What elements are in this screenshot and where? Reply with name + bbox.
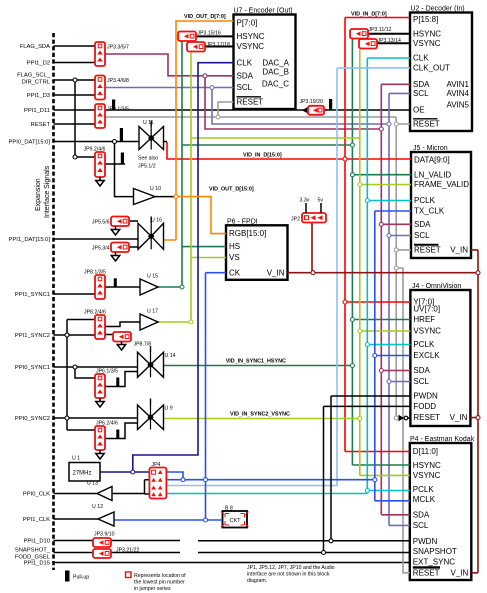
wire JP3.17/18 to U7.VSYNC [205, 46, 234, 48]
svg-text:HSYNC: HSYNC [413, 29, 441, 38]
wire U13 output to JP4 [112, 480, 149, 494]
svg-text:SDA: SDA [414, 220, 431, 229]
svg-text:FODD: FODD [413, 402, 436, 411]
svg-text:PPI0_SYNC2: PPI0_SYNC2 [15, 416, 50, 422]
jumper JP5.5/6 [92, 217, 129, 227]
node FLAG_SDA [20, 44, 95, 50]
svg-text:HSYNC: HSYNC [413, 461, 441, 470]
block J5 Micron [411, 145, 471, 258]
svg-text:PWDN: PWDN [413, 537, 438, 546]
svg-text:PCLK: PCLK [414, 196, 436, 205]
wire PPI1_SYNC2 branch vertical [67, 320, 95, 431]
wire U10 output [155, 196, 176, 198]
wire JP3.19/20 stub [302, 107, 308, 114]
wire SDA magenta net [105, 54, 411, 515]
svg-text:PPI1_D11: PPI1_D11 [24, 108, 50, 114]
wire U11 output to red bus [164, 141, 168, 143]
svg-text:V_IN: V_IN [450, 246, 468, 255]
jumper JP4 [149, 462, 166, 499]
svg-text:J4 - OmniVision: J4 - OmniVision [412, 283, 461, 290]
expansion interface bus rail [35, 33, 54, 570]
node PPI1_D2 [27, 61, 95, 67]
svg-text:DAC_C: DAC_C [262, 80, 289, 89]
buffer U12 [92, 504, 114, 526]
node PPI0_SYNC2 [15, 416, 138, 422]
svg-text:JP4: JP4 [152, 462, 161, 468]
node PPI1_CLK [23, 517, 98, 523]
svg-text:V_IN: V_IN [267, 268, 285, 277]
svg-text:JP5.1/2: JP5.1/2 [138, 164, 156, 170]
svg-text:27MHz: 27MHz [73, 471, 92, 477]
svg-text:JP3.13/14: JP3.13/14 [378, 38, 401, 44]
svg-text:VID_IN_SYNC1_HSYNC: VID_IN_SYNC1_HSYNC [226, 359, 286, 365]
ground below JP6.1/3/5 [96, 398, 104, 407]
svg-text:FLAG_SCL_: FLAG_SCL_ [17, 73, 51, 79]
svg-text:JP1, JP5.12, JP7, JP10 and the: JP1, JP5.12, JP7, JP10 and the Audio [247, 565, 335, 571]
block U7 Encoder (Out) [234, 8, 296, 110]
wire JP8.2/4/6 to JP8.7/8 [105, 334, 113, 336]
svg-text:AVIN4: AVIN4 [446, 89, 469, 98]
pull-up on OE [112, 100, 115, 111]
wire MCLK royal blue net [167, 211, 412, 501]
svg-text:B 8: B 8 [225, 506, 233, 512]
node PPI0_CLK [23, 492, 97, 498]
wire JP5.3/4 to U16 [129, 246, 138, 248]
node PPI0_DAT[15:0] [9, 140, 139, 146]
jumper JP3.17/18 [187, 42, 230, 52]
svg-text:V_IN: V_IN [450, 413, 468, 422]
svg-text:VID_IN_D[7:0]: VID_IN_D[7:0] [351, 12, 387, 18]
svg-text:PPI1_CLK: PPI1_CLK [23, 517, 50, 523]
svg-text:OE: OE [413, 106, 425, 115]
svg-text:RESET: RESET [31, 122, 51, 128]
wire JP8.2/4/6 to U17 [105, 322, 140, 327]
svg-text:VS: VS [229, 253, 240, 262]
jumper JP6.2/4/6 [95, 421, 118, 451]
svg-text:PPI1_SYNC2: PPI1_SYNC2 [15, 333, 50, 339]
svg-text:VSYNC: VSYNC [237, 42, 265, 51]
wire JP3.11/12 to U2.HSYNC [368, 33, 410, 35]
jumper JP8.2/4/6 [84, 310, 106, 340]
svg-text:J5 - Micron: J5 - Micron [413, 145, 448, 152]
svg-text:JP8.1/3/5: JP8.1/3/5 [84, 270, 106, 276]
svg-text:PPI1_D2: PPI1_D2 [27, 61, 50, 67]
wire RESET gray net [105, 102, 411, 573]
svg-text:in jumper series: in jumper series [134, 586, 171, 592]
svg-text:UV[7:0]: UV[7:0] [413, 304, 440, 313]
svg-text:RESET: RESET [413, 120, 440, 129]
buffer U16 [138, 217, 164, 250]
svg-text:SNAPSHOT_: SNAPSHOT_ [15, 548, 51, 554]
wire PPI0_SYNC1 branch to JP6.1/3/5 [75, 367, 95, 378]
svg-text:RESET: RESET [414, 246, 441, 255]
node PPI1_D10 [24, 539, 180, 545]
svg-text:V_IN: V_IN [451, 568, 469, 577]
inverter bubble J4 RESET [399, 415, 411, 421]
wire JP5.5/6 to U16 [129, 220, 138, 222]
svg-text:CKT: CKT [230, 518, 242, 524]
block J4 OmniVision [410, 283, 470, 426]
svg-text:PPI1_D15: PPI1_D15 [24, 561, 50, 567]
wire HSYNC dark green net [158, 39, 411, 466]
node PPI1_D15 [24, 561, 410, 567]
svg-text:RESET: RESET [413, 568, 440, 577]
svg-text:3.3v: 3.3v [300, 198, 310, 204]
svg-text:PPI1_DAT[15:0]: PPI1_DAT[15:0] [9, 237, 51, 243]
svg-text:PPI0_CLK: PPI0_CLK [23, 492, 50, 498]
svg-text:SCL: SCL [413, 377, 429, 386]
wire PPI0_DAT branch to U10 [115, 142, 134, 197]
jumper JP2 [291, 198, 326, 223]
buffer U11 [138, 120, 164, 170]
svg-text:Interface Signals: Interface Signals [44, 165, 51, 218]
svg-text:DATA[9:0]: DATA[9:0] [414, 155, 450, 164]
wire SCL slate net [105, 88, 411, 526]
svg-text:JP3.19/20: JP3.19/20 [300, 99, 323, 105]
svg-text:EXCLK: EXCLK [413, 351, 440, 360]
svg-text:JP8.2/4/6: JP8.2/4/6 [84, 310, 106, 316]
legend lowest-pin square [126, 572, 187, 592]
jumper JP3.15/16 [178, 31, 221, 42]
jumper JP3.9/10 [93, 532, 115, 548]
svg-text:SCL: SCL [413, 89, 429, 98]
svg-text:SDA: SDA [413, 80, 430, 89]
node FLAG_SCL/DIR_CTRL [17, 73, 95, 86]
svg-text:DAC_B: DAC_B [262, 67, 289, 76]
svg-text:JP9.1/3/5: JP9.1/3/5 [107, 107, 129, 113]
svg-text:SDA: SDA [237, 71, 254, 80]
svg-text:VSYNC: VSYNC [413, 471, 441, 480]
pull-up near JP9.2/4/6 [121, 153, 124, 164]
junction nodes colored upper [174, 74, 398, 252]
wire JP6.1/3/5 to U14 [105, 372, 138, 387]
svg-text:PCLK: PCLK [413, 485, 435, 494]
wire JP3.15/16 to U7.HSYNC [196, 35, 234, 37]
svg-text:U 11: U 11 [143, 120, 154, 126]
svg-text:SCL: SCL [413, 521, 429, 530]
node PPI1_DAT[15:0] [9, 237, 138, 243]
jumper JP9.1/3/5 [95, 104, 129, 128]
svg-text:diagram.: diagram. [247, 578, 267, 584]
jumper JP3.11/12 [350, 27, 392, 39]
svg-text:LN_VALID: LN_VALID [414, 170, 451, 179]
svg-text:JP9.2/4/6: JP9.2/4/6 [84, 147, 106, 153]
svg-text:PWDN: PWDN [413, 392, 438, 401]
svg-text:Pull-up: Pull-up [73, 575, 89, 581]
svg-text:SCL: SCL [237, 83, 253, 92]
wire JP6.2/4/6 to U9 [105, 423, 138, 439]
buffer U10 [134, 186, 162, 205]
svg-text:JP2: JP2 [291, 217, 300, 223]
svg-text:P[15:8]: P[15:8] [413, 15, 438, 24]
svg-text:DIR_CTRL: DIR_CTRL [22, 80, 51, 86]
svg-text:PCLK: PCLK [413, 340, 435, 349]
svg-text:U7 - Encoder (Out): U7 - Encoder (Out) [234, 8, 293, 15]
svg-text:PPI0_DAT[15:0]: PPI0_DAT[15:0] [9, 140, 51, 146]
ground below JP5.5/6 [111, 226, 119, 235]
svg-text:CLK: CLK [237, 58, 253, 67]
svg-text:P6 - FPDI: P6 - FPDI [227, 218, 258, 225]
legend pull-up [65, 571, 89, 582]
ground below JP8.7/8 [117, 342, 125, 351]
svg-text:JP3.21/22: JP3.21/22 [116, 548, 139, 554]
jumper JP8.1/3/5 [84, 270, 106, 300]
svg-text:U 1: U 1 [72, 456, 80, 462]
wire branch FLAG_SCL down [75, 80, 95, 157]
svg-text:JP3.9/10: JP3.9/10 [94, 532, 115, 538]
svg-text:SDA: SDA [413, 510, 430, 519]
svg-text:HSYNC: HSYNC [237, 32, 265, 41]
pull-up near JP3.19/20 [329, 99, 332, 110]
svg-text:JP3.11/12: JP3.11/12 [369, 27, 392, 33]
wire OE net (PPI1_D11 to U2.OE) [105, 109, 410, 111]
block U2 Decoder (In) [410, 6, 472, 132]
jumper JP3.21/22 [93, 548, 139, 559]
svg-text:MCLK: MCLK [413, 495, 436, 504]
svg-text:AVIN1: AVIN1 [446, 80, 469, 89]
pull-up on U11 input [120, 128, 123, 141]
svg-text:VSYNC: VSYNC [413, 327, 441, 336]
svg-text:JP3.15/16: JP3.15/16 [198, 31, 221, 37]
svg-text:JP8.7/8: JP8.7/8 [134, 342, 152, 348]
svg-text:Represents location of: Represents location of [134, 573, 186, 579]
svg-text:FLAG_SDA: FLAG_SDA [20, 44, 50, 50]
svg-text:JP3.17/18: JP3.17/18 [207, 42, 230, 48]
jumper JP6.1/3/5 [95, 369, 118, 399]
svg-text:U 15: U 15 [147, 274, 158, 280]
svg-text:P[7:0]: P[7:0] [237, 18, 258, 27]
svg-text:5v: 5v [318, 198, 324, 204]
buffer U13 [87, 481, 112, 501]
svg-text:U 12: U 12 [92, 504, 103, 510]
svg-text:PPI0_SYNC1: PPI0_SYNC1 [15, 365, 50, 371]
svg-text:U 17: U 17 [147, 309, 158, 315]
wire JP8.1/3/5 to U15 [105, 286, 140, 288]
svg-text:U 14: U 14 [165, 353, 176, 359]
svg-text:CLK_OUT: CLK_OUT [413, 64, 450, 73]
jumper JP8.7/8 [113, 332, 151, 348]
svg-text:Expansion: Expansion [35, 178, 42, 211]
svg-text:EXT_SYNC: EXT_SYNC [413, 558, 455, 567]
svg-text:interface are not shown in thi: interface are not shown in this block [247, 572, 330, 578]
svg-text:RESET: RESET [413, 413, 440, 422]
wire U7 CLK navy net [100, 63, 234, 472]
node RESET [31, 122, 95, 128]
junction nodes colored lower [131, 266, 480, 522]
jumper JP3.3/5/7 [95, 42, 129, 66]
svg-text:U 16: U 16 [151, 218, 162, 224]
ground below JP9.2/4/6 [96, 177, 104, 186]
jumper JP9.2/4/6 [84, 147, 106, 178]
svg-text:U 13: U 13 [87, 481, 98, 487]
svg-text:U 9: U 9 [165, 406, 173, 412]
svg-text:SCL: SCL [414, 231, 430, 240]
svg-text:PPI1_SYNC1: PPI1_SYNC1 [15, 292, 50, 298]
node PPI1_D11 [24, 108, 95, 114]
ground below JP6.2/4/6 [96, 450, 104, 459]
buffer U14 [138, 346, 176, 377]
pull-up on U14 jumper wire [116, 378, 119, 387]
ground below JP5.3/4 [111, 252, 119, 261]
jumper JP3.4/6/8 [95, 76, 129, 100]
svg-text:PPI1_D3: PPI1_D3 [27, 93, 50, 99]
svg-text:DAC_A: DAC_A [262, 58, 289, 67]
svg-text:JP3.4/6/8: JP3.4/6/8 [107, 78, 129, 84]
pull-up on U9 jumper wire [116, 430, 119, 439]
svg-text:JP6.1/3/5: JP6.1/3/5 [96, 369, 118, 375]
wire PCLK cyan net [167, 58, 412, 494]
svg-text:VSYNC: VSYNC [413, 39, 441, 48]
svg-text:HS: HS [229, 242, 240, 251]
svg-text:FRAME_VALID: FRAME_VALID [414, 180, 469, 189]
buffer U17 [140, 309, 158, 331]
node PPI1_SYNC2 [15, 333, 95, 339]
buffer U15 [140, 274, 158, 296]
wire VID_OUT orange net [164, 14, 254, 240]
svg-text:SDA: SDA [413, 366, 430, 375]
node PPI1_SYNC1 [15, 292, 95, 298]
wire VSYNC yellow-green net [158, 50, 411, 476]
junction nodes black [65, 78, 333, 555]
svg-text:JP5.3/4: JP5.3/4 [92, 246, 110, 252]
svg-text:U2 - Decoder (In): U2 - Decoder (In) [411, 6, 465, 13]
jumper JP5.3/4 [92, 243, 129, 253]
svg-text:P4 - Eastman Kodak: P4 - Eastman Kodak [410, 436, 475, 443]
svg-text:JP6.2/4/6: JP6.2/4/6 [96, 421, 118, 427]
wire CK royal blue net (U12/B8/P6) [114, 273, 226, 520]
svg-text:VID_IN_D[15:0]: VID_IN_D[15:0] [243, 153, 282, 159]
wire VID_IN_D red net [167, 12, 411, 452]
node SNAPSHOT/FODD_GSEL [15, 548, 180, 561]
jumper JP3.13/14 [359, 38, 401, 49]
block P6 FPDI [226, 218, 288, 279]
svg-text:See also: See also [138, 156, 158, 162]
svg-text:the lowest pin number: the lowest pin number [134, 580, 185, 586]
wire PWDN net bottom [198, 396, 410, 541]
footnote [247, 565, 335, 584]
circuit B8 CKT [221, 506, 249, 528]
svg-text:RESET: RESET [237, 98, 264, 107]
buffer U9 [138, 399, 173, 430]
wire CLK_OUT sky blue net [167, 68, 411, 486]
svg-text:TX_CLK: TX_CLK [414, 207, 445, 216]
node PPI0_SYNC1 [15, 365, 138, 371]
svg-text:RGB[15:0]: RGB[15:0] [229, 229, 266, 238]
svg-text:CLK: CLK [413, 54, 429, 63]
svg-text:VID_OUT_D[7:0]: VID_OUT_D[7:0] [184, 14, 226, 20]
pull-up on U15 input [114, 278, 117, 287]
wire JP9.2/4/6 stub [105, 163, 125, 165]
svg-text:JP5.5/6: JP5.5/6 [92, 220, 110, 226]
svg-text:SNAPSHOT: SNAPSHOT [413, 547, 457, 556]
svg-text:CK: CK [229, 268, 241, 277]
wire V_IN dark red net [288, 223, 479, 573]
block P4 Eastman Kodak [410, 436, 475, 580]
oscillator U1 27MHz [69, 456, 100, 482]
svg-text:JP3.3/5/7: JP3.3/5/7 [107, 45, 129, 51]
svg-text:VID_OUT_D[15:0]: VID_OUT_D[15:0] [209, 187, 254, 193]
svg-text:U 10: U 10 [150, 186, 161, 192]
svg-text:PPI1_D10: PPI1_D10 [24, 539, 50, 545]
svg-text:D[11:0]: D[11:0] [413, 447, 438, 456]
jumper JP3.19/20 [300, 99, 325, 115]
svg-text:AVIN5: AVIN5 [446, 101, 469, 110]
node PPI1_D3 [27, 93, 95, 99]
svg-text:VID_IN_SYNC2_VSYNC: VID_IN_SYNC2_VSYNC [230, 412, 290, 418]
svg-text:HREF: HREF [413, 315, 435, 324]
wire SNAPSHOT/FODD net bottom [198, 406, 410, 552]
wire JP3.13/14 to U2.VSYNC [377, 42, 410, 44]
